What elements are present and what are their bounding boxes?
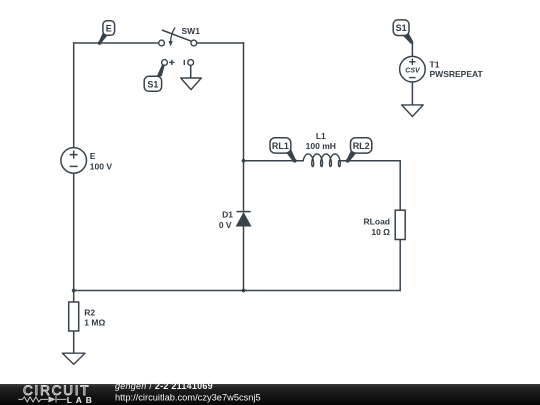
node flag RL1: [270, 138, 297, 163]
svg-text:E: E: [90, 151, 96, 161]
svg-text:10 Ω: 10 Ω: [371, 227, 390, 237]
wire RLoad top lead: [399, 161, 401, 210]
label T1 value: [430, 59, 484, 79]
wire top rail left: [74, 42, 159, 44]
wire right drop to middle junction: [243, 43, 245, 161]
voltage source T1: [400, 56, 426, 82]
junction node middle: [242, 159, 246, 163]
svg-text:S1: S1: [147, 79, 158, 89]
node flag S1 at switch: [144, 64, 165, 91]
switch control - terminal: [184, 60, 193, 66]
ground at T1: [402, 105, 424, 117]
svg-text:RL2: RL2: [353, 141, 370, 151]
node flag E: [98, 21, 115, 45]
svg-text:gengen / 2-2 21141069: gengen / 2-2 21141069: [115, 381, 213, 391]
resistor R2: [69, 302, 79, 331]
wire diode anode: [243, 226, 245, 291]
label D1 value: [219, 210, 233, 230]
svg-text:PWSREPEAT: PWSREPEAT: [430, 69, 484, 79]
svg-text:RLoad: RLoad: [364, 217, 390, 227]
svg-text:100 mH: 100 mH: [306, 141, 336, 151]
wire R2 top lead: [73, 291, 75, 303]
wire R2 ground lead: [73, 331, 75, 353]
svg-text:D1: D1: [222, 210, 233, 220]
svg-text:SW1: SW1: [182, 26, 201, 36]
svg-text:1 MΩ: 1 MΩ: [84, 317, 105, 327]
svg-text:100 V: 100 V: [90, 161, 113, 171]
node flag S1 top right: [393, 20, 413, 44]
junction node bottom diode: [242, 289, 246, 293]
wire RLoad bottom lead: [399, 240, 401, 291]
CircuitLab logo circuit glyph: [18, 397, 66, 402]
inductor L1: [303, 154, 340, 167]
voltage source E: [61, 148, 87, 174]
svg-text:LAB: LAB: [67, 395, 96, 405]
svg-text:L1: L1: [316, 131, 326, 141]
wire left rail upper: [73, 43, 75, 148]
wire middle rail right: [339, 160, 400, 162]
ground at R2: [62, 353, 85, 364]
switch control + terminal: [162, 60, 175, 66]
svg-text:RL1: RL1: [272, 141, 289, 151]
wire bottom rail: [74, 290, 401, 292]
diode D1: [237, 161, 251, 226]
svg-text:R2: R2: [84, 308, 95, 318]
svg-text:0 V: 0 V: [219, 220, 232, 230]
label E value: [90, 151, 113, 172]
wire middle rail left: [244, 160, 304, 162]
footer bar: [0, 384, 540, 405]
label L1 value: [306, 131, 336, 151]
node flag RL2: [346, 138, 372, 163]
ground at switch: [181, 78, 202, 90]
resistor RLoad: [395, 210, 405, 239]
junction node bottom left: [72, 289, 76, 293]
svg-text:T1: T1: [430, 59, 440, 69]
wire top rail right: [197, 42, 244, 44]
svg-text:http://circuitlab.com/czy3e7w5: http://circuitlab.com/czy3e7w5csnj5: [115, 392, 261, 402]
svg-text:CSV: CSV: [405, 68, 421, 75]
wire T1 ground lead: [411, 82, 413, 105]
svg-text:E: E: [106, 23, 112, 33]
wire switch ground lead: [190, 66, 192, 78]
label R2 value: [84, 308, 105, 328]
wire left rail lower: [73, 173, 75, 290]
label RLoad value: [364, 217, 391, 237]
svg-text:S1: S1: [396, 23, 407, 33]
wire T1 top stub: [411, 43, 413, 56]
switch SW1: [159, 28, 197, 47]
